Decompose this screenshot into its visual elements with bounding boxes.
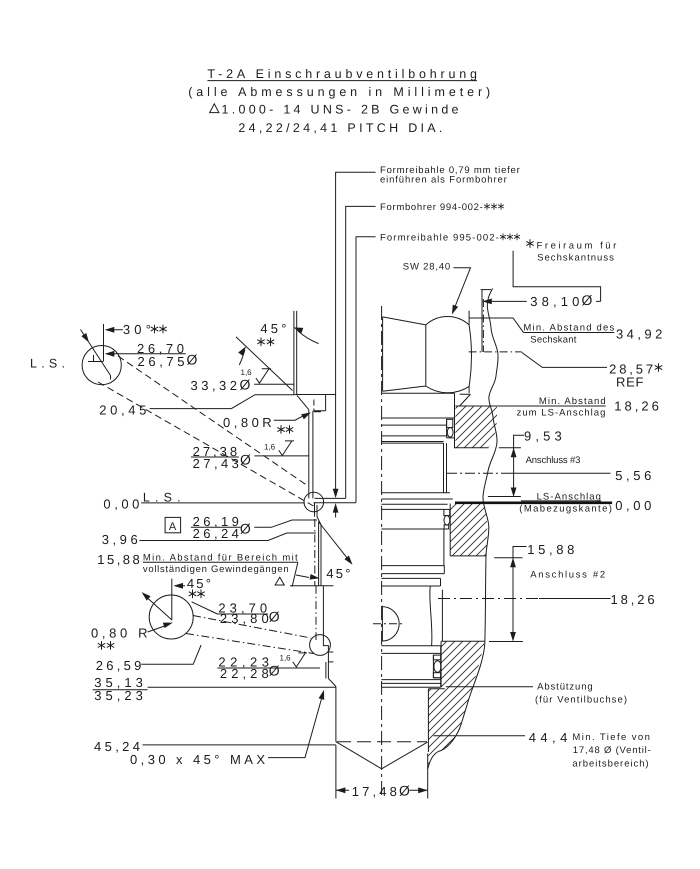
cavity small step ticks at thread start bbox=[314, 395, 326, 412]
svg-text:34,92: 34,92 bbox=[616, 326, 662, 341]
title line 3 triangle symbol bbox=[210, 104, 219, 113]
pitch dashed line lower bbox=[315, 586, 317, 640]
LS datum line left half bbox=[141, 502, 305, 504]
triangle note arrow to thread wall bbox=[296, 575, 309, 578]
valve nose rings bbox=[381, 646, 440, 688]
svg-text:17,48 Ø (Ventil-: 17,48 Ø (Ventil- bbox=[573, 745, 651, 756]
SW leader arrow at hex apex bbox=[449, 305, 458, 316]
svg-text:15,88: 15,88 bbox=[97, 552, 139, 567]
hex head silhouette bbox=[383, 316, 472, 393]
45 degree reference vertical detail 2 bbox=[171, 579, 173, 620]
groove left wall and bottom edge bbox=[447, 419, 455, 438]
valve thread section outline bbox=[444, 443, 447, 493]
backup ring upper groove bbox=[447, 419, 453, 427]
backup ring nose upper bbox=[433, 655, 440, 660]
svg-text:30°: 30° bbox=[123, 322, 151, 337]
valve cage wavy edge bbox=[430, 586, 432, 646]
svg-text:Ø: Ø bbox=[399, 782, 410, 798]
cross-drilled hole semicircle bbox=[382, 607, 399, 641]
svg-text:Sechskant: Sechskant bbox=[530, 335, 576, 346]
thread pitch dashed line upper bbox=[314, 519, 316, 586]
bracket from Freiraum note to 38,10 dimension bbox=[513, 251, 601, 302]
cavity seal bore wall 23,70/23,80 bbox=[319, 522, 321, 586]
svg-text:0,00: 0,00 bbox=[615, 498, 651, 513]
svg-text:arbeitsbereich): arbeitsbereich) bbox=[572, 759, 648, 770]
35,13 leader bbox=[148, 686, 336, 688]
bore wall at band B bbox=[449, 504, 451, 556]
svg-text:15,88: 15,88 bbox=[527, 542, 574, 557]
cavity bottom chamfer 0,30 x 45 bbox=[328, 679, 336, 687]
projection lines from detail 2 to seat corner bbox=[186, 616, 314, 654]
hex corner extension line bbox=[468, 311, 470, 325]
30 degree reference vertical bbox=[103, 324, 105, 361]
cavity wall 22,23/22,28 bbox=[322, 586, 324, 641]
valve nose bottom lands bbox=[381, 655, 440, 687]
leader 1 up arrow at reamer seat bbox=[333, 503, 339, 512]
dimension extension lines 17,48 bbox=[336, 745, 428, 799]
27,38 leader to thread wall bbox=[254, 455, 308, 457]
body hatch band A (between spotface floor and port 3) bbox=[455, 406, 497, 447]
svg-text:Ø: Ø bbox=[240, 376, 251, 392]
port 3 bottom thin line bbox=[488, 496, 521, 498]
svg-text:27,43: 27,43 bbox=[193, 456, 239, 471]
svg-text:33,32: 33,32 bbox=[191, 378, 238, 393]
backup ring mid lower bbox=[444, 525, 449, 529]
dimension 38,10 dia leader line bbox=[484, 300, 601, 302]
svg-text:Ø: Ø bbox=[240, 521, 251, 537]
dimension line 17,48 dia bbox=[336, 789, 428, 791]
valve land rings in port 2 bbox=[381, 566, 444, 586]
form drill seat line bbox=[315, 497, 346, 499]
wavy break line of body section bbox=[428, 288, 498, 768]
min depth dashed level line bbox=[337, 741, 427, 743]
svg-text:45°: 45° bbox=[187, 576, 211, 591]
svg-text:Abstützung: Abstützung bbox=[537, 682, 593, 693]
body hatch band C (below port 2) bbox=[428, 641, 485, 768]
26,19 leader bbox=[254, 520, 317, 527]
28,57 REF leader bbox=[522, 352, 607, 367]
33,32 leader to spotface wall bbox=[254, 383, 294, 385]
svg-text:Ø: Ø bbox=[269, 609, 280, 625]
port 3 centerline 5,56 bbox=[447, 472, 508, 474]
svg-text:5,56: 5,56 bbox=[615, 468, 651, 483]
svg-text:3,96: 3,96 bbox=[102, 532, 138, 547]
cavity seat corner steps bbox=[323, 641, 333, 679]
dimension 44,4 leader bbox=[434, 735, 526, 737]
dashed projection lines from detail 1 to LS corner bbox=[98, 356, 314, 506]
detail 1 interior profile bbox=[88, 355, 111, 380]
45 degree radius line with arrow detail 2 bbox=[147, 597, 173, 620]
detail circle 2 bbox=[149, 595, 193, 639]
form reamer seat line / LS datum left bbox=[314, 502, 357, 504]
small dash-dot corner at thread start bbox=[313, 400, 315, 412]
cavity wall jog below LS bbox=[315, 503, 322, 525]
bore wall below valve nose and support step bbox=[428, 689, 444, 752]
svg-text:A: A bbox=[169, 521, 177, 533]
svg-text:24,22/24,41 PITCH DIA.: 24,22/24,41 PITCH DIA. bbox=[238, 121, 442, 135]
port 2 centerline 18,26 bbox=[438, 598, 539, 600]
svg-text:vollständigen Gewindegängen: vollständigen Gewindegängen bbox=[143, 564, 289, 575]
svg-text:26,24: 26,24 bbox=[193, 526, 239, 541]
svg-text:Anschluss #3: Anschluss #3 bbox=[526, 455, 581, 466]
port 3 top edge bbox=[455, 447, 521, 449]
body top surface segment right half bbox=[481, 289, 491, 291]
section cut edge at centerline bbox=[381, 606, 383, 642]
svg-text:Min. Abstand: Min. Abstand bbox=[539, 396, 606, 407]
svg-text:Ø: Ø bbox=[269, 663, 280, 679]
hex nut clearance depth dashed line 28,57 REF bbox=[469, 351, 522, 353]
SW leader line bbox=[453, 268, 470, 307]
note slant leader to seat line bbox=[292, 562, 298, 586]
svg-text:zum LS-Anschlag: zum LS-Anschlag bbox=[517, 408, 606, 419]
leader 1 elbow and vertical bbox=[336, 172, 376, 494]
svg-text:45°: 45° bbox=[260, 321, 286, 336]
23,70 leader to detail circle bbox=[192, 602, 218, 614]
dimension 38,10 arrow bbox=[482, 299, 492, 305]
cavity thread wall 26,19/26,24 bbox=[309, 410, 313, 499]
svg-text:26,75: 26,75 bbox=[138, 354, 185, 369]
30 degree leader bbox=[106, 329, 123, 331]
30 degree cone line through detail bbox=[81, 330, 111, 376]
45 leader arrow detail 2 bbox=[175, 585, 185, 587]
svg-text:1,6: 1,6 bbox=[280, 654, 292, 663]
drill point cone bbox=[336, 742, 428, 769]
cavity 45 degree entry chamfer bbox=[297, 395, 309, 409]
datum A box bbox=[165, 517, 181, 532]
triangle note symbol bbox=[275, 577, 284, 585]
centerline of valve and bore bbox=[381, 306, 383, 795]
label Abstuetzung (fuer Ventilbuchse) bbox=[446, 686, 533, 688]
svg-text:18,26: 18,26 bbox=[611, 592, 655, 607]
title underline bbox=[207, 80, 477, 82]
svg-text:0,30 x 45° MAX: 0,30 x 45° MAX bbox=[130, 752, 265, 767]
svg-text:Formreibahle 995-002-: Formreibahle 995-002- bbox=[380, 232, 499, 243]
valve neck rings under washer bbox=[381, 425, 447, 436]
svg-text:SW 28,40: SW 28,40 bbox=[403, 261, 451, 272]
45 degree angular arc arrow left bbox=[239, 350, 245, 365]
cavity seat line 15,88 bbox=[290, 585, 333, 587]
svg-text:REF: REF bbox=[616, 374, 643, 389]
45 degree mid diagonal with arrow bbox=[318, 522, 348, 560]
svg-text:20,45: 20,45 bbox=[99, 403, 146, 418]
svg-text:Sechskantnuss: Sechskantnuss bbox=[537, 253, 614, 264]
svg-text:einführen als Formbohrer: einführen als Formbohrer bbox=[380, 174, 507, 185]
svg-text:Min. Abstand des: Min. Abstand des bbox=[523, 323, 614, 334]
svg-text:45°: 45° bbox=[326, 566, 350, 581]
cavity extension lines above mouth bbox=[294, 311, 297, 395]
svg-text:Formbohrer 994-002-: Formbohrer 994-002- bbox=[380, 202, 483, 213]
cross hole centerline tick bbox=[373, 623, 403, 625]
cavity bore wall 17,48 bbox=[335, 686, 337, 741]
svg-text:0,00: 0,00 bbox=[103, 496, 139, 511]
hex top extension line 34,92 bbox=[469, 318, 523, 332]
svg-text:9,53: 9,53 bbox=[524, 429, 562, 444]
note: * Freiraum fuer Sechskantnuss bbox=[526, 239, 533, 248]
body hatch band B (between LS datum and port 2) bbox=[450, 504, 487, 556]
valve shoulder lines at LS bbox=[381, 493, 452, 504]
spotface extension dashed bbox=[482, 299, 484, 352]
spotface wall 38,10 bbox=[481, 290, 483, 352]
45 degree chamfer dimension line top bbox=[236, 337, 293, 391]
svg-text:17,48: 17,48 bbox=[352, 784, 397, 799]
spotface floor / seat face line with leader to Min. Abstand bbox=[455, 405, 605, 407]
small detail circle at LS corner bbox=[304, 492, 324, 512]
svg-text:18,26: 18,26 bbox=[614, 398, 659, 413]
backup ring mid groove bbox=[444, 509, 450, 515]
leader 2 bbox=[346, 206, 376, 498]
small detail circle at seat corner bbox=[310, 635, 331, 656]
body seat chamfer under hex corner bbox=[460, 394, 471, 406]
port 2 bottom edge bbox=[489, 641, 523, 643]
LS-Anschlag datum thick line bbox=[455, 501, 612, 504]
svg-text:(Mabezugskante): (Mabezugskante) bbox=[519, 504, 612, 515]
backup ring nose lower bbox=[433, 673, 440, 678]
o-ring nose bbox=[434, 661, 441, 673]
45 degree angular arc arrow right bbox=[298, 331, 319, 344]
hatch B bottom edge bbox=[450, 556, 522, 558]
detail circle 1 bbox=[82, 346, 121, 385]
valve cage straight edge bbox=[441, 590, 443, 642]
o-ring upper groove bbox=[447, 428, 453, 438]
0,80R leader with arrow bbox=[274, 415, 305, 420]
svg-text:1,6: 1,6 bbox=[264, 443, 276, 452]
leader 1 lower tail bbox=[335, 507, 337, 518]
valve thread relief band bbox=[381, 442, 443, 444]
leader 1 down arrow at drill seat bbox=[333, 489, 339, 499]
svg-text:26,59: 26,59 bbox=[96, 658, 142, 673]
leader 3 bbox=[356, 237, 376, 503]
o-ring mid groove bbox=[444, 516, 450, 526]
valve seal washer under hex bbox=[381, 393, 454, 448]
valve mid section lines bbox=[381, 509, 444, 565]
cavity spotface floor line bbox=[295, 394, 336, 396]
hatch C top edge bbox=[441, 641, 485, 687]
svg-text:Anschluss #2: Anschluss #2 bbox=[530, 570, 605, 581]
svg-text:(alle Abmessungen in Millimete: (alle Abmessungen in Millimeter) bbox=[188, 85, 490, 99]
svg-text:Ø: Ø bbox=[187, 352, 198, 368]
svg-text:Ø: Ø bbox=[582, 292, 593, 308]
svg-text:Ø: Ø bbox=[240, 452, 251, 468]
svg-text:(für Ventilbuchse): (für Ventilbuchse) bbox=[535, 695, 627, 706]
